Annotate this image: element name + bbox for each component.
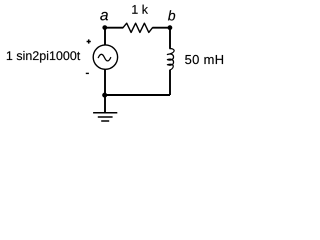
minus sign of source	[86, 72, 89, 74]
inductor L1 coil	[167, 49, 174, 70]
wire node a down to source + terminal	[104, 28, 106, 45]
label: node a	[100, 12, 108, 20]
ground middle bar	[98, 116, 113, 118]
ground bottom bar	[101, 120, 109, 122]
label: inductor value 50 mH	[185, 55, 223, 64]
wire inductor down to bottom-right corner	[169, 70, 171, 95]
source V1 circle	[93, 45, 117, 69]
label: node b	[168, 10, 175, 20]
wire bottom: corner to junction	[105, 94, 170, 96]
wire top-left: node a to resistor	[104, 27, 123, 29]
label: source value 1 sin2pi1000t	[7, 51, 80, 63]
bottom junction dot	[102, 93, 107, 98]
wire resistor to node b	[153, 27, 171, 29]
plus sign of source	[87, 39, 91, 43]
wire junction down to ground	[104, 95, 106, 112]
node a junction dot	[102, 25, 107, 30]
wire source - terminal down to junction	[104, 69, 106, 95]
node b junction dot	[168, 25, 173, 30]
label: resistor value 1 k	[132, 5, 148, 14]
resistor R1 zigzag	[123, 23, 153, 32]
source V1 sine symbol	[98, 54, 110, 61]
ground top bar	[93, 112, 117, 114]
wire node b down to inductor	[169, 28, 171, 49]
